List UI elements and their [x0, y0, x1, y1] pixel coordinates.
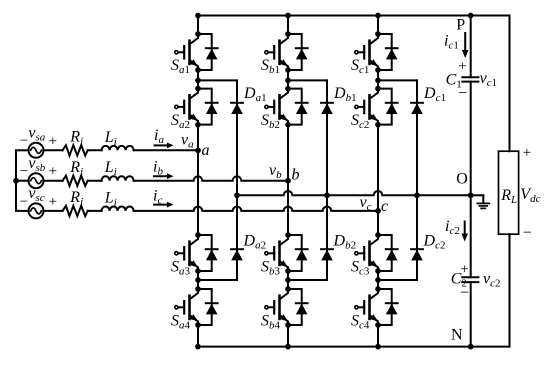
svg-text:+: + [523, 145, 531, 161]
svg-text:−: − [460, 285, 469, 302]
svg-text:c: c [381, 198, 388, 215]
svg-text:a: a [202, 142, 210, 159]
svg-text:−: − [523, 225, 532, 242]
svg-text:+: + [49, 164, 57, 180]
svg-text:−: − [458, 85, 467, 102]
svg-text:b: b [292, 167, 300, 184]
svg-text:P: P [456, 17, 465, 34]
svg-text:+: + [458, 59, 466, 75]
svg-text:−: − [20, 194, 28, 210]
svg-text:N: N [451, 327, 463, 344]
svg-text:+: + [49, 194, 57, 210]
svg-text:+: + [49, 133, 57, 149]
svg-text:−: − [20, 164, 28, 180]
svg-text:O: O [456, 171, 468, 188]
svg-text:−: − [20, 133, 28, 149]
svg-text:+: + [460, 262, 468, 278]
